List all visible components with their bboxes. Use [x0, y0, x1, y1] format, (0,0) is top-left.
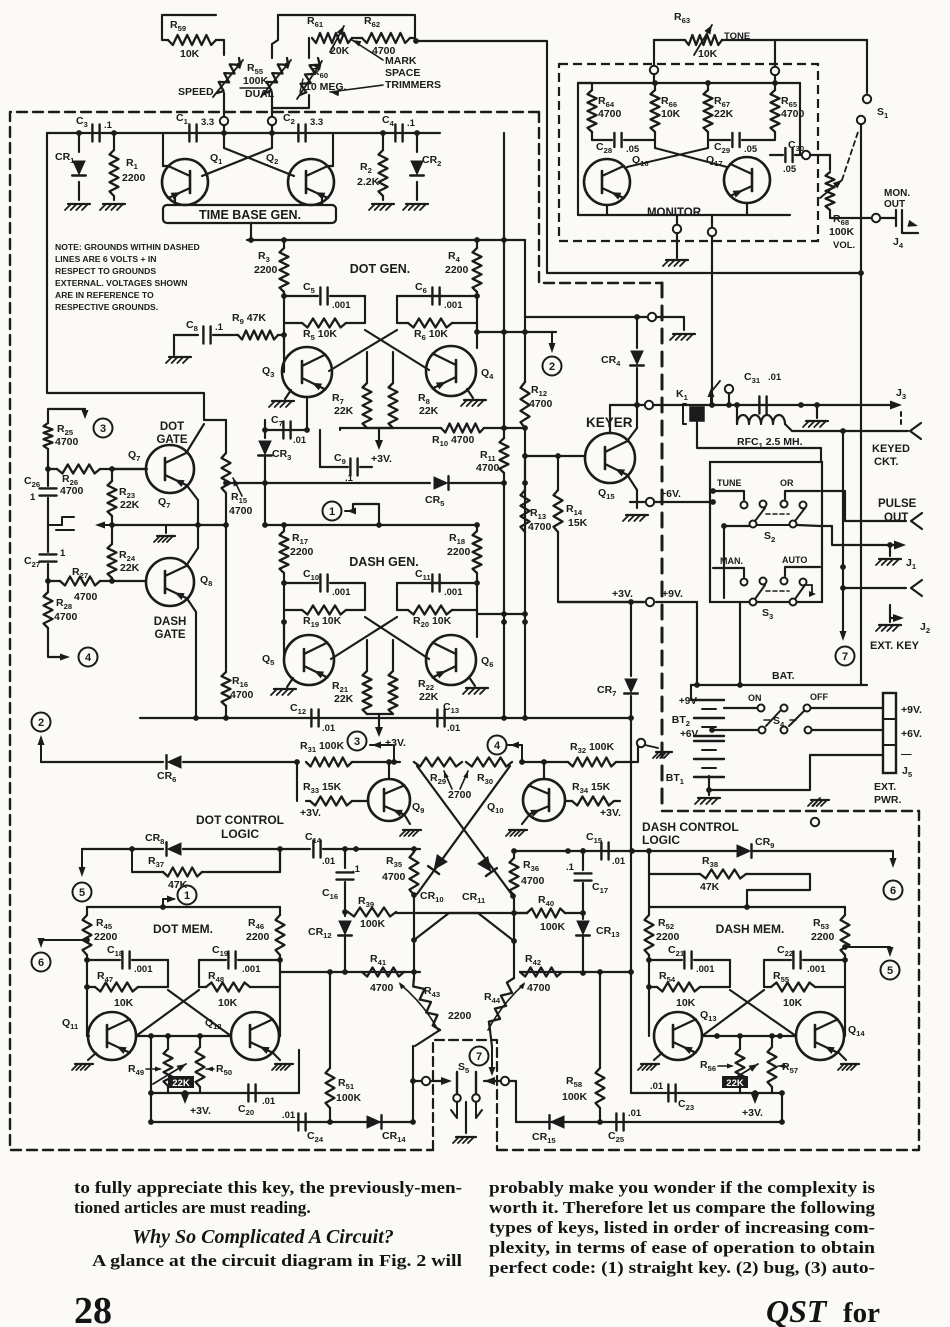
svg-text:SPACE: SPACE: [385, 67, 420, 79]
capacitor C17: [566, 851, 608, 919]
relay K1: [676, 388, 704, 424]
capacitor C8: [174, 319, 224, 355]
svg-text:TUNE: TUNE: [717, 478, 742, 488]
switch S1: [857, 40, 889, 124]
+3V arrow: [371, 440, 392, 465]
ground: [403, 204, 428, 210]
resistor R10: [432, 424, 525, 449]
svg-text:worth it. Therefore let us com: worth it. Therefore let us compare the f…: [489, 1198, 875, 1217]
resistor R62: [362, 15, 410, 57]
potentiometer R56: [700, 1049, 758, 1089]
svg-text:Why So Complicated A Circuit?: Why So Complicated A Circuit?: [132, 1226, 394, 1248]
capacitor C15: [586, 831, 626, 867]
resistor R39: [348, 895, 396, 930]
potentiometer R60: [272, 58, 347, 108]
wire: [386, 759, 392, 779]
ground: [65, 204, 90, 210]
resistor R44 diag: [484, 898, 525, 1047]
svg-text:10K: 10K: [114, 997, 134, 1009]
wire: [272, 15, 278, 58]
wire: [168, 1036, 200, 1093]
junction: [522, 453, 561, 459]
wire: [654, 40, 685, 66]
svg-text:R33 15K: R33 15K: [303, 781, 342, 795]
capacitor C11: [397, 568, 477, 610]
wire: [413, 1077, 452, 1085]
diode CR4: [601, 317, 644, 405]
junction: [342, 846, 359, 852]
note text: [55, 242, 200, 312]
svg-text:.001: .001: [134, 964, 153, 975]
svg-text:22K: 22K: [172, 1078, 190, 1089]
svg-text:100K: 100K: [360, 918, 386, 930]
svg-text:DOT GEN.: DOT GEN.: [350, 262, 410, 276]
wire: [654, 488, 710, 502]
resistor R48: [199, 970, 280, 1009]
terminal: [802, 151, 810, 159]
svg-text:2.2K: 2.2K: [357, 176, 380, 188]
wire left rail: [47, 133, 226, 420]
svg-text:CKT.: CKT.: [874, 456, 898, 468]
capacitor C18: [87, 944, 168, 987]
svg-text:RESPECT TO GROUNDS: RESPECT TO GROUNDS: [55, 266, 156, 276]
svg-text:3.3: 3.3: [310, 117, 323, 128]
ground: [400, 830, 421, 836]
ground: [269, 390, 294, 407]
wire CR8 row: [82, 848, 163, 850]
transistor Q10: [487, 779, 565, 821]
ground: [272, 1052, 293, 1070]
svg-text:+3V.: +3V.: [190, 1105, 211, 1117]
monitor dashed box: [559, 64, 818, 241]
svg-text:3.3: 3.3: [201, 117, 214, 128]
junction: [262, 480, 507, 486]
wire: [840, 588, 847, 641]
svg-text:1: 1: [329, 506, 335, 518]
wire collector: [628, 405, 637, 440]
junction: [501, 611, 528, 617]
resistor R53: [811, 907, 850, 955]
wire: [774, 40, 776, 66]
wire Q7 emitter: [188, 487, 198, 525]
svg-text:28: 28: [74, 1290, 112, 1327]
resistor R30: [460, 758, 512, 790]
svg-text:+6V.: +6V.: [680, 729, 700, 740]
resistor R15: [222, 453, 253, 517]
svg-text:2200: 2200: [656, 931, 680, 943]
resistor R34: [565, 781, 621, 819]
potentiometer R55b: [261, 58, 291, 121]
svg-text:ARE IN REFERENCE TO: ARE IN REFERENCE TO: [55, 290, 154, 300]
junction: [519, 759, 525, 765]
svg-text:.1: .1: [104, 120, 113, 131]
wire J1: [820, 526, 898, 545]
terminal: [650, 66, 658, 74]
svg-text:.01: .01: [322, 723, 336, 734]
svg-text:BAT.: BAT.: [772, 670, 795, 682]
resistor R29: [414, 758, 472, 802]
junction: [501, 425, 528, 431]
node 7b: [470, 1047, 489, 1066]
rail x525 lower: [524, 428, 526, 456]
wire: [224, 125, 272, 133]
svg-text:4700: 4700: [382, 871, 406, 883]
diode CR3: [258, 430, 291, 525]
diode CR7: [597, 602, 638, 1093]
potentiometer R68: [820, 132, 858, 251]
wire R10 row: [340, 428, 441, 430]
transistor Q7: [128, 445, 194, 510]
node 2b: [32, 713, 51, 732]
svg-text:PWR.: PWR.: [874, 794, 901, 806]
resistor R7: [332, 383, 372, 428]
svg-text:.001: .001: [444, 300, 463, 311]
wire: [722, 39, 867, 41]
ground: [100, 204, 125, 210]
svg-text:OFF: OFF: [810, 692, 828, 702]
resistor R23: [108, 469, 140, 516]
wire: [645, 745, 672, 758]
label KEYER: [586, 415, 633, 430]
capacitor C21: [649, 944, 730, 987]
resistor R5: [284, 319, 365, 343]
connector EXT PWR: [883, 693, 922, 779]
S5 dashed box: [433, 1040, 497, 1150]
ground: [506, 830, 527, 836]
diode CR2: [410, 133, 441, 200]
svg-text:OR: OR: [780, 478, 794, 488]
resistor R12: [521, 382, 553, 428]
rail x504: [503, 133, 505, 428]
terminal: [708, 228, 716, 236]
svg-text:7: 7: [476, 1051, 482, 1063]
svg-text:QST: QST: [766, 1293, 828, 1327]
svg-text:perfect code: (1) straight key: perfect code: (1) straight key. (2) bug,…: [489, 1258, 875, 1277]
svg-text:.01: .01: [262, 1096, 276, 1107]
svg-text:10K: 10K: [218, 997, 238, 1009]
junction: [45, 578, 51, 584]
svg-text:.1: .1: [407, 118, 416, 129]
svg-text:4700: 4700: [74, 591, 98, 603]
capacitor C31: [744, 371, 782, 414]
wire: [163, 133, 168, 166]
wire +6V: [630, 501, 646, 503]
wire R20 row to rail: [477, 610, 525, 614]
resistor R24: [108, 544, 140, 578]
junction: [634, 314, 640, 320]
junction: [652, 80, 778, 86]
junction: [798, 402, 804, 408]
node 5: [73, 883, 92, 902]
resistor R32: [522, 741, 638, 767]
svg-text:.001: .001: [807, 964, 826, 975]
svg-text:4700: 4700: [598, 108, 622, 120]
battery BT2: [672, 696, 724, 736]
junction: [858, 270, 864, 276]
wire +3/+9: [558, 588, 644, 602]
wire set-cross P: [396, 913, 514, 941]
wire: [328, 133, 333, 166]
svg-text:to fully appreciate this key,: to fully appreciate this key, the previo…: [74, 1178, 462, 1197]
wire: [522, 814, 530, 824]
wire monitor output: [709, 236, 715, 408]
terminal: [725, 385, 733, 393]
junction: [262, 427, 310, 433]
transistor Q12: [205, 1012, 279, 1060]
svg-text:2200: 2200: [445, 264, 469, 276]
svg-text:4700: 4700: [529, 398, 553, 410]
svg-text:1: 1: [30, 492, 36, 503]
capacitor C22: [764, 944, 845, 987]
transistor Q6: [426, 635, 493, 685]
svg-text:TRIMMERS: TRIMMERS: [385, 79, 441, 91]
wire: [410, 1046, 416, 1125]
resistor R9: [213, 312, 284, 340]
wire: [724, 707, 757, 709]
wire: [225, 493, 227, 672]
svg-text:.01: .01: [628, 1108, 642, 1119]
transistor Q9: [368, 779, 424, 821]
relay coil return: [697, 421, 821, 462]
diode CR9: [737, 836, 894, 858]
node 4b: [488, 736, 523, 763]
wire monitor feed: [413, 38, 861, 273]
svg-text:probably make you wonder if th: probably make you wonder if the complexi…: [489, 1178, 875, 1197]
svg-text:DOT CONTROL: DOT CONTROL: [196, 813, 284, 827]
+3V arrow: [742, 1090, 763, 1119]
svg-text:MON.: MON.: [884, 188, 910, 199]
resistor R20: [397, 606, 477, 630]
junction: [262, 522, 480, 528]
svg-text:2: 2: [549, 361, 555, 373]
wire dashmem top: [649, 874, 845, 910]
resistor R41: [362, 953, 404, 994]
svg-text:OUT: OUT: [884, 512, 908, 524]
svg-text:15K: 15K: [568, 517, 588, 529]
svg-text:4700: 4700: [476, 462, 500, 474]
wire: [489, 1047, 496, 1076]
ground: [876, 618, 930, 635]
svg-text:4700: 4700: [55, 436, 79, 448]
transistor Q13: [654, 1009, 717, 1060]
capacitor C10: [284, 568, 365, 610]
ground: [461, 389, 486, 406]
wire: [525, 316, 648, 318]
resistor R40: [511, 894, 586, 933]
svg-text:DOT: DOT: [160, 421, 184, 433]
svg-text:KEYED: KEYED: [872, 443, 910, 455]
ground: [695, 790, 720, 804]
svg-text:1: 1: [60, 548, 66, 559]
wire: [250, 223, 252, 240]
junction: [111, 130, 117, 136]
arrow left: [95, 522, 112, 529]
transistor Q1: [162, 152, 223, 205]
resistor R63: [674, 11, 750, 60]
svg-text:+3V.: +3V.: [600, 807, 621, 819]
label DASH CONTROL LOGIC: [642, 820, 739, 847]
wire: [367, 714, 393, 730]
wire: [656, 317, 684, 330]
terminal: [872, 214, 880, 222]
wire bottom bus: [140, 717, 631, 719]
resistor R11: [476, 428, 509, 483]
wire: [578, 83, 800, 215]
ground: [623, 515, 648, 521]
junction: [840, 585, 846, 591]
svg-text:+3V.: +3V.: [300, 807, 321, 819]
arrow down5: [79, 849, 86, 877]
paragraph right: [489, 1178, 875, 1277]
QST for: [766, 1293, 880, 1327]
label S5: [458, 1061, 470, 1075]
rail x504 low: [503, 483, 505, 718]
wire: [283, 335, 285, 372]
+3V arrow: [181, 1090, 211, 1117]
wire bottom dash: [516, 1090, 785, 1125]
terminal: [268, 117, 276, 125]
svg-text:2200: 2200: [254, 264, 278, 276]
label DOT MEM: [153, 922, 213, 936]
rail x525 upper: [524, 240, 526, 382]
diode CR6: [157, 755, 297, 784]
dashed border step: [539, 112, 662, 283]
transistor Q14: [796, 1012, 865, 1060]
svg-text:ON: ON: [748, 693, 762, 703]
jack J2: [911, 580, 922, 596]
diode CR10 diag: [417, 766, 510, 904]
svg-text:2200: 2200: [122, 172, 146, 184]
capacitor C16: [322, 849, 361, 916]
svg-text:100K: 100K: [829, 226, 855, 238]
wire cross-coupling: [329, 330, 429, 383]
svg-text:R20 10K: R20 10K: [413, 615, 452, 629]
terminal: [637, 739, 645, 747]
svg-text:4700: 4700: [528, 521, 552, 533]
svg-text:4700: 4700: [521, 875, 545, 887]
transistor Q15: [585, 433, 635, 501]
svg-text:GATE: GATE: [154, 629, 185, 641]
svg-text:5: 5: [79, 887, 85, 899]
capacitor C25: [608, 1108, 642, 1144]
capacitor C9: [320, 430, 372, 484]
terminal: [220, 117, 228, 125]
resistor R67: [704, 83, 734, 132]
wire cross-coupling: [202, 133, 294, 176]
junction: [76, 130, 82, 136]
svg-text:—: —: [901, 748, 912, 760]
relay contact: [708, 381, 721, 405]
ground: [166, 357, 191, 363]
svg-text:+3V.: +3V.: [371, 453, 392, 465]
wire: [812, 729, 883, 731]
wire: [558, 532, 644, 602]
wire: [810, 155, 830, 170]
svg-text:+3V.: +3V.: [612, 588, 633, 600]
svg-text:100K: 100K: [562, 1091, 588, 1103]
resistor R58: [562, 972, 605, 1125]
resistor R4: [445, 240, 482, 292]
resistor R59: [168, 19, 216, 60]
diode CR13: [576, 921, 619, 976]
ground: [803, 402, 828, 427]
resistor R36: [510, 851, 545, 895]
+3V arrow: [375, 727, 406, 749]
wire: [709, 727, 758, 733]
resistor R19: [284, 606, 365, 630]
junction: [634, 402, 640, 408]
svg-text:DASH: DASH: [154, 616, 187, 628]
svg-text:.01: .01: [612, 856, 626, 867]
wire J2 row: [840, 564, 906, 588]
junction: [628, 599, 634, 721]
box TIME BASE GEN: [163, 196, 336, 223]
wire dot-gen top bus: [247, 239, 525, 241]
svg-text:3: 3: [354, 736, 360, 748]
arrow to 2: [549, 332, 556, 353]
transistor Q17: [706, 154, 770, 203]
wire cross: [87, 990, 231, 1039]
wire R6-row to rail: [477, 323, 556, 332]
capacitor C27: [24, 548, 66, 581]
resistor R66: [651, 83, 681, 132]
hook: [890, 605, 904, 622]
ground: [463, 677, 488, 694]
diode CR11 diag: [417, 766, 516, 905]
svg-text:SPEED: SPEED: [178, 86, 214, 98]
resistor R31: [300, 740, 400, 767]
svg-text:.05: .05: [744, 144, 758, 155]
junction: [474, 329, 528, 335]
terminal: [648, 313, 656, 321]
resistor R8: [389, 383, 439, 428]
resistor R33: [300, 781, 367, 819]
wire: [654, 74, 775, 83]
capacitor C24: [282, 1110, 324, 1144]
svg-text:.1: .1: [215, 322, 224, 333]
resistor R47: [87, 970, 168, 1009]
svg-text:DASH GEN.: DASH GEN.: [349, 555, 418, 569]
wire: [404, 814, 410, 824]
svg-text:+3V.: +3V.: [385, 737, 406, 749]
resistor R3: [254, 240, 289, 292]
wire: [111, 578, 113, 581]
svg-text:DASH CONTROL: DASH CONTROL: [642, 820, 739, 834]
capacitor C29: [708, 132, 775, 155]
svg-text:OUT: OUT: [884, 199, 905, 210]
svg-text:EXTERNAL. VOLTAGES SHOWN: EXTERNAL. VOLTAGES SHOWN: [55, 278, 187, 288]
svg-text:10K: 10K: [698, 48, 718, 60]
resistor R42: [520, 953, 562, 994]
rail 867: [860, 273, 862, 685]
resistor R37: [129, 846, 280, 891]
svg-text:tioned articles are must readi: tioned articles are must reading.: [74, 1198, 311, 1217]
svg-text:.01: .01: [282, 1110, 296, 1121]
label KEYED CKT: [872, 443, 910, 468]
rail R15: [225, 420, 227, 453]
resistor R22: [389, 671, 439, 714]
label DASH GEN: [349, 555, 418, 569]
resistor R14: [554, 456, 588, 532]
dashed border left+top+bottom: [10, 112, 539, 1150]
svg-text:4700: 4700: [781, 108, 805, 120]
ground small: [154, 525, 175, 542]
svg-text:LINES ARE 6 VOLTS + IN: LINES ARE 6 VOLTS + IN: [55, 254, 156, 264]
label EXT PWR: [874, 781, 901, 806]
junction: [726, 402, 732, 408]
wire keyed line: [610, 404, 893, 406]
battery BT1: [666, 729, 724, 786]
